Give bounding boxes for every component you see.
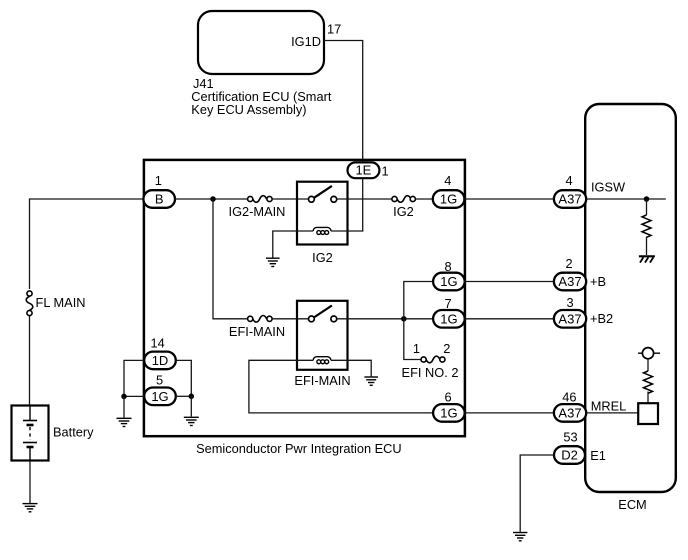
battery — [12, 405, 49, 461]
pin number 3 (A37) — [567, 295, 574, 310]
MREL driver box — [638, 403, 658, 424]
relay EFI-MAIN — [297, 301, 348, 370]
svg-text:IG2: IG2 — [312, 250, 333, 265]
svg-text:ECM: ECM — [618, 497, 646, 512]
wire junction to ground — [190, 396, 192, 416]
svg-text:MREL: MREL — [591, 399, 627, 414]
pin number 2 of EFI NO. 2 — [443, 341, 450, 356]
wire B to IG2-MAIN fuse — [175, 198, 248, 200]
svg-text:7: 7 — [445, 296, 452, 311]
svg-text:1D: 1D — [152, 353, 169, 368]
svg-text:+B: +B — [590, 274, 606, 289]
svg-text:Semiconductor Pwr Integration: Semiconductor Pwr Integration ECU — [196, 441, 402, 456]
ground at pins 14/5 — [184, 417, 199, 425]
junction node at 646.5,199 — [644, 196, 650, 202]
svg-text:1: 1 — [413, 341, 420, 356]
label FL MAIN — [36, 295, 86, 310]
svg-text:EFI-MAIN: EFI-MAIN — [229, 324, 285, 339]
svg-text:1G: 1G — [440, 192, 457, 207]
ground at EFI-MAIN relay coil — [364, 377, 378, 385]
pin name E1 — [590, 448, 606, 463]
ground outside pins 14/5 — [117, 418, 132, 426]
pin label IG1D — [291, 34, 321, 49]
pin number 2 (A37) — [566, 256, 573, 271]
fuse IG2-MAIN — [248, 196, 273, 203]
pin name IGSW — [591, 180, 626, 195]
junction node at 213,199 — [210, 196, 216, 202]
pin number 1 of B — [155, 173, 162, 188]
wire battery to connector B — [30, 199, 145, 289]
wire resistor to chassis ground — [646, 237, 648, 256]
wire E1 to ground — [520, 455, 554, 532]
label ECM — [618, 497, 646, 512]
relay IG2 — [297, 182, 348, 245]
connector A37 pin 2 +B — [554, 273, 586, 291]
connector A37 pin 4 IGSW — [554, 190, 586, 208]
svg-text:D2: D2 — [561, 448, 578, 463]
connector 1D pin 14 — [144, 352, 176, 370]
wire FL MAIN to battery — [29, 316, 31, 406]
pin name +B — [590, 274, 606, 289]
wire outside junction to ground — [123, 396, 125, 417]
svg-text:IGSW: IGSW — [591, 180, 626, 195]
svg-text:4: 4 — [566, 173, 573, 188]
svg-text:1G: 1G — [440, 312, 457, 327]
wire junction to resistor — [646, 199, 648, 215]
connector 1G pin 6 — [433, 404, 465, 422]
connector D2 pin 53 E1 — [554, 446, 585, 464]
wire junction to fuse EFI NO. 2 — [404, 319, 421, 360]
svg-text:Battery: Battery — [53, 425, 94, 440]
svg-text:2: 2 — [566, 256, 573, 271]
svg-text:IG2: IG2 — [393, 204, 414, 219]
svg-text:EFI-MAIN: EFI-MAIN — [294, 373, 350, 388]
label Battery — [53, 425, 94, 440]
pin number 17 — [327, 21, 341, 36]
label EFI-MAIN (relay) — [294, 373, 350, 388]
wire resistor to driver — [647, 392, 649, 404]
pin number 7 — [445, 296, 452, 311]
svg-text:14: 14 — [151, 335, 165, 350]
svg-text:IG1D: IG1D — [291, 34, 321, 49]
connector 1G pin 8 — [433, 273, 465, 291]
svg-text:46: 46 — [562, 390, 576, 405]
connector 1G pin 5 — [144, 388, 176, 406]
chassis ground IGSW — [639, 256, 655, 262]
label J41 — [193, 76, 214, 91]
wire relay IG2 coil to ground — [273, 231, 313, 258]
svg-text:EFI NO. 2: EFI NO. 2 — [402, 365, 459, 380]
junction node at 403.8,318.8 — [401, 316, 407, 322]
connector A37 pin 3 +B2 — [554, 310, 586, 328]
label EFI NO. 2 — [402, 365, 459, 380]
pin number 1 of EFI NO. 2 — [413, 341, 420, 356]
junction node at 191.3,396.3 — [189, 394, 195, 400]
junction node at 124,396.4 — [121, 394, 127, 400]
wire battery to ground — [29, 461, 31, 503]
svg-text:2: 2 — [443, 341, 450, 356]
resistor MREL pullup — [644, 371, 653, 393]
wire relay EFI-MAIN contact to pin 7 — [337, 318, 433, 320]
wire fuse IG2 to pin 4 — [416, 198, 433, 200]
svg-text:1G: 1G — [440, 274, 457, 289]
svg-text:53: 53 — [563, 430, 577, 445]
fuse EFI-MAIN — [248, 316, 273, 323]
wire relay EFI-MAIN coil to ground — [331, 360, 371, 376]
svg-text:1G: 1G — [151, 389, 168, 404]
svg-text:A37: A37 — [558, 192, 581, 207]
wire relay IG2 contact to fuse IG2 — [337, 198, 392, 200]
wire pin 4 to ECM IGSW — [465, 198, 555, 200]
fuse FL MAIN — [26, 291, 33, 316]
ground at IG2 relay coil — [266, 258, 280, 266]
wire pin 7 to ECM +B2 — [465, 318, 555, 320]
wire MREL to driver — [586, 412, 638, 414]
label Semiconductor Pwr Integration ECU — [196, 441, 402, 456]
svg-text:1: 1 — [155, 173, 162, 188]
svg-text:17: 17 — [327, 21, 341, 36]
wire pin 8 to ECM +B — [465, 281, 555, 283]
svg-text:3: 3 — [567, 295, 574, 310]
pin number 53 — [563, 430, 577, 445]
svg-text:4: 4 — [444, 173, 451, 188]
svg-text:A37: A37 — [558, 406, 581, 421]
pin number 1 of 1E — [382, 163, 389, 178]
pin number 5 — [156, 372, 163, 387]
label EFI-MAIN (fuse) — [229, 324, 285, 339]
J41 Certification ECU box — [198, 11, 324, 74]
connector 1G pin 7 — [433, 310, 465, 328]
battery feed terminal circle — [638, 348, 660, 359]
pin number 14 — [151, 335, 165, 350]
connector 1G pin 4 — [433, 190, 465, 208]
wire J41 IG1D to connector 1E — [324, 41, 363, 163]
svg-text:B: B — [155, 192, 164, 207]
wire relay IG2 coil to connector 1E — [331, 178, 363, 231]
pin number 8 — [445, 259, 452, 274]
wire junction to pin 8 — [404, 282, 433, 319]
connector A37 pin 46 MREL — [554, 404, 586, 422]
svg-text:E1: E1 — [590, 448, 606, 463]
wire 1D left to outside ground junction — [124, 360, 144, 396]
svg-text:IG2-MAIN: IG2-MAIN — [229, 204, 286, 219]
ground below battery — [23, 504, 38, 512]
label Certification ECU (Smart — [191, 89, 332, 104]
wire terminal to resistor — [647, 359, 649, 371]
pin number 4 — [444, 173, 451, 188]
svg-text:1E: 1E — [355, 163, 371, 178]
label IG2 (relay) — [312, 250, 333, 265]
wire branch main to EFI row — [213, 199, 248, 319]
svg-text:6: 6 — [445, 389, 452, 404]
wire 1G pin5 left to outside ground junction — [124, 395, 144, 397]
connector 1E on ECU top edge — [348, 162, 380, 178]
label Key ECU Assembly) — [191, 102, 306, 117]
pin name +B2 — [590, 311, 613, 326]
svg-text:1: 1 — [382, 163, 389, 178]
svg-text:A37: A37 — [558, 274, 581, 289]
wire relay EFI-MAIN coil to pin 6 — [249, 360, 433, 413]
ECM box — [585, 104, 676, 492]
fuse IG2 — [392, 196, 416, 203]
svg-text:1G: 1G — [440, 406, 457, 421]
wire pin 6 to ECM MREL — [465, 412, 555, 414]
wire EFI-MAIN fuse to relay — [272, 318, 308, 320]
svg-text:5: 5 — [156, 372, 163, 387]
ground at E1 — [513, 533, 527, 541]
label IG2-MAIN — [229, 204, 286, 219]
pin number 6 — [445, 389, 452, 404]
pin number 4 (A37) — [566, 173, 573, 188]
pin number 46 — [562, 390, 576, 405]
wire IG2-MAIN fuse to relay IG2 — [272, 198, 308, 200]
svg-text:8: 8 — [445, 259, 452, 274]
wire IGSW internal — [586, 198, 666, 200]
resistor IGSW pulldown — [642, 215, 651, 237]
pin name MREL — [591, 399, 627, 414]
svg-text:Key ECU Assembly): Key ECU Assembly) — [191, 102, 306, 117]
label IG2 (fuse) — [393, 204, 414, 219]
svg-text:A37: A37 — [558, 312, 581, 327]
fuse EFI NO. 2 — [421, 356, 445, 363]
connector B pin 1 — [143, 190, 175, 208]
wire 1D to ground junction — [176, 360, 192, 396]
svg-text:FL MAIN: FL MAIN — [36, 295, 86, 310]
wire 1G pin5 to ground junction — [176, 395, 192, 397]
svg-text:+B2: +B2 — [590, 311, 613, 326]
Semiconductor Pwr Integration ECU box — [144, 160, 465, 436]
